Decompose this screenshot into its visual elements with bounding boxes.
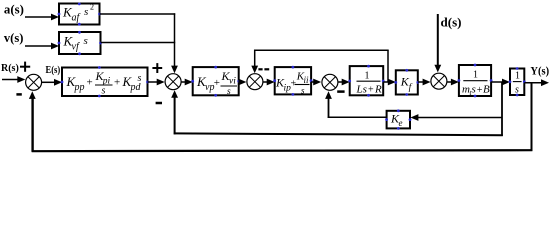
svg-text:1: 1	[473, 70, 478, 81]
summer S2 (velocity loop)	[165, 74, 181, 90]
wire tap to block Ke	[418, 117, 502, 119]
summer S1 (position error)	[26, 74, 42, 90]
svg-text:B: B	[483, 84, 490, 96]
dashed minus mark at summer S3 top input	[258, 68, 262, 70]
block current PI Kip+Kii/s	[275, 67, 311, 94]
block mechanical 1/(mts+B)	[459, 65, 491, 96]
svg-text:1: 1	[365, 70, 370, 81]
wire Kaf output to feedforward node	[100, 13, 176, 15]
svg-text:vf: vf	[72, 42, 80, 53]
wire current feedback riser	[387, 50, 389, 82]
wire v(s) to block Kvf	[25, 45, 53, 47]
wire current feedback drop into S3	[254, 50, 256, 66]
anchor dots ms+B block	[458, 64, 493, 98]
wire S1 to position PID block	[42, 81, 56, 83]
svg-text:+: +	[214, 77, 220, 89]
svg-text:s: s	[227, 87, 231, 97]
wire S2 to block Kvp	[182, 81, 187, 83]
svg-text:s: s	[138, 73, 142, 84]
anchor dots Kip block	[273, 66, 312, 96]
wire Kf to summer S5	[418, 81, 424, 83]
svg-text:2: 2	[90, 3, 94, 12]
svg-text:d(s): d(s)	[441, 15, 462, 30]
anchor dots block Kaf	[58, 3, 101, 26]
wire velocity feedback riser into S2	[174, 98, 176, 135]
svg-text:s: s	[84, 6, 88, 18]
anchor dots Ke block	[385, 109, 411, 129]
plus sign at summer S1 input	[20, 66, 30, 68]
svg-text:s: s	[84, 35, 88, 47]
svg-text:s: s	[301, 85, 305, 95]
wire velocity feedback run	[174, 133, 503, 135]
wire position feedback riser from output tap	[531, 83, 533, 151]
wire Ls+R to block Kf with current tap node	[383, 81, 389, 83]
wire back-emf tap riser	[501, 82, 503, 136]
minus sign at summer S4 feedback input	[337, 90, 344, 93]
anchor dots block Kvf	[58, 31, 102, 55]
wire S3 to block Kip	[263, 81, 268, 83]
svg-text:pp: pp	[74, 82, 85, 93]
wire d(s) into summer S5	[437, 14, 439, 66]
block Kf (force constant)	[396, 70, 418, 94]
wire Ke output to summer S4	[328, 116, 387, 118]
svg-text:af: af	[72, 13, 81, 24]
svg-text:E(s): E(s)	[46, 65, 61, 76]
svg-text:+: +	[114, 77, 120, 89]
svg-text:1: 1	[515, 70, 520, 81]
wire position feedback riser into S1	[31, 99, 33, 152]
summer S3 (current loop)	[247, 74, 263, 90]
anchor dots Kf block	[394, 69, 419, 96]
svg-text:s: s	[472, 84, 476, 96]
summer S5 (disturbance)	[431, 73, 447, 89]
svg-text:Ls: Ls	[356, 84, 367, 96]
anchor dots Ls+R block	[348, 65, 384, 97]
wire position feedback bottom run	[32, 150, 533, 151]
block Kvf s (velocity feedforward)	[59, 32, 101, 54]
block armature 1/(Ls+R)	[350, 66, 384, 95]
wire 1/s to Y(s) output	[524, 82, 542, 84]
svg-text:v(s): v(s)	[4, 30, 24, 45]
minus sign at summer S2 feedback input	[156, 102, 162, 105]
wire Kip to summer S4	[311, 81, 314, 83]
block Kaf s^2 (acceleration feedforward)	[59, 4, 100, 25]
anchor dots 1/s block	[509, 67, 526, 96]
wire R(s) into summer S1	[2, 79, 19, 81]
svg-text:e: e	[399, 118, 403, 128]
svg-text:+: +	[87, 77, 93, 89]
block integrator 1/s	[510, 69, 524, 96]
svg-text:R: R	[374, 84, 382, 96]
wire Kvf output to feedforward node	[101, 42, 176, 44]
svg-text:a(s): a(s)	[4, 2, 24, 17]
anchor dots PID block	[61, 66, 149, 97]
anchor dots Kvp block	[191, 66, 240, 97]
plus sign at summer S2 top input	[152, 67, 162, 69]
block velocity PI Kvp+Kvi/s	[193, 67, 239, 95]
minus sign at summer S1 feedback input	[16, 93, 21, 96]
svg-text:+: +	[477, 85, 483, 96]
wire feedforward drop into summer S2	[174, 13, 176, 66]
block position PID Kpp+Kpi/s+Kpd s	[62, 68, 148, 97]
svg-text:vi: vi	[229, 77, 236, 87]
wire S4 to block 1/(Ls+R)	[338, 81, 343, 83]
svg-text:ii: ii	[304, 75, 310, 85]
wire current feedback top run	[254, 49, 389, 51]
wire ms+B to block 1/s with velocity tap node	[491, 81, 503, 83]
wire a(s) to block Kaf	[25, 16, 53, 18]
svg-text:s: s	[102, 86, 106, 97]
wire PID to summer S2	[148, 81, 159, 83]
svg-text:Y(s): Y(s)	[530, 64, 549, 78]
wire S5 to block 1/(ms+B)	[447, 81, 452, 83]
wire Kvp to summer S3	[238, 81, 241, 83]
block Ke (back-emf constant)	[387, 111, 410, 129]
svg-text:R(s): R(s)	[1, 63, 19, 74]
summer S4 (back-emf)	[322, 74, 338, 90]
